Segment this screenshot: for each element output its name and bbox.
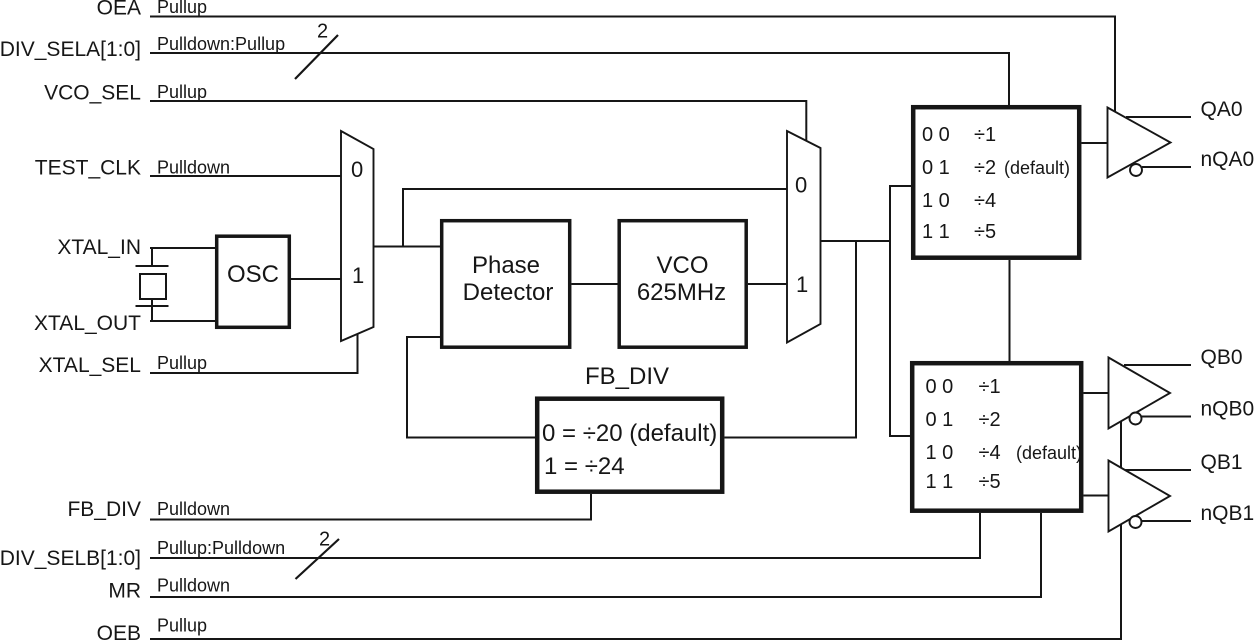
wire XTAL_SEL <box>150 333 358 373</box>
feedback divider FB_DIV <box>537 363 722 492</box>
svg-text:XTAL_IN: XTAL_IN <box>57 236 141 259</box>
svg-text:0: 0 <box>795 173 807 198</box>
svg-text:Pullup: Pullup <box>157 616 207 636</box>
svg-text:1 0: 1 0 <box>922 190 950 212</box>
wire divider A to divider B select <box>1009 260 1011 361</box>
wire PLL bypass node to mux2 input 0 <box>403 189 787 247</box>
phase detector U1 <box>442 221 570 348</box>
svg-text:QB0: QB0 <box>1201 346 1243 369</box>
svg-text:÷4: ÷4 <box>979 442 1001 464</box>
svg-text:1: 1 <box>352 263 364 288</box>
svg-text:QA0: QA0 <box>1201 98 1243 121</box>
divider B <box>912 363 1082 511</box>
VCO U2 <box>619 221 746 348</box>
svg-text:÷5: ÷5 <box>974 221 996 243</box>
inversion bubble B0 <box>1130 413 1142 425</box>
wire phase detector to VCO <box>572 283 618 285</box>
svg-text:÷2: ÷2 <box>974 157 996 179</box>
wire OSC to mux1 <box>291 278 341 280</box>
svg-text:0 0: 0 0 <box>926 376 954 398</box>
svg-text:0 1: 0 1 <box>926 409 954 431</box>
svg-text:VCO_SEL: VCO_SEL <box>44 82 141 105</box>
svg-text:TEST_CLK: TEST_CLK <box>35 157 141 180</box>
svg-text:Pullup: Pullup <box>157 82 207 102</box>
svg-text:VCO: VCO <box>656 252 708 279</box>
wire VCO_SEL <box>150 101 806 141</box>
svg-text:Phase: Phase <box>472 252 540 279</box>
svg-text:÷1: ÷1 <box>979 376 1001 398</box>
svg-text:nQB0: nQB0 <box>1201 398 1255 421</box>
svg-text:XTAL_SEL: XTAL_SEL <box>39 354 141 377</box>
svg-text:1 0: 1 0 <box>926 442 954 464</box>
mux M2 <box>787 131 821 343</box>
inversion bubble B1 <box>1130 516 1142 528</box>
wire VCO to mux2 input 1 <box>748 283 787 285</box>
svg-text:÷4: ÷4 <box>974 190 996 212</box>
svg-text:Pullup:Pulldown: Pullup:Pulldown <box>157 538 285 558</box>
svg-text:Detector: Detector <box>463 279 554 306</box>
wire OEB <box>150 421 1121 639</box>
svg-text:OEA: OEA <box>97 0 141 20</box>
svg-text:DIV_SELB[1:0]: DIV_SELB[1:0] <box>0 547 141 570</box>
svg-text:0 1: 0 1 <box>922 157 950 179</box>
svg-text:2: 2 <box>319 529 330 551</box>
svg-text:÷1: ÷1 <box>974 124 996 146</box>
bus slash DIV_SELA <box>295 35 338 79</box>
wire nQB0 <box>1142 416 1192 418</box>
svg-text:OEB: OEB <box>97 622 141 642</box>
svg-text:OSC: OSC <box>227 261 279 288</box>
svg-text:0 = ÷20 (default): 0 = ÷20 (default) <box>542 420 717 447</box>
svg-text:1 1: 1 1 <box>922 221 950 243</box>
svg-text:FB_DIV: FB_DIV <box>585 363 669 390</box>
wire DIV_SELA[1:0] <box>150 53 1009 105</box>
svg-text:625MHz: 625MHz <box>637 279 726 306</box>
svg-text:Pullup: Pullup <box>157 353 207 373</box>
oscillator OSC <box>217 236 290 327</box>
wire FB_DIV pin <box>150 494 591 520</box>
svg-text:XTAL_OUT: XTAL_OUT <box>34 312 141 335</box>
wire MR <box>150 513 1041 597</box>
wire nQA0 <box>1142 166 1191 168</box>
svg-text:(default): (default) <box>1004 158 1070 178</box>
wire nQB1 <box>1142 520 1192 522</box>
wire feedback tap to FB_DIV <box>725 241 857 438</box>
svg-text:DIV_SELA[1:0]: DIV_SELA[1:0] <box>0 38 141 61</box>
svg-text:1: 1 <box>796 272 808 297</box>
wire OEA <box>150 17 1115 112</box>
svg-text:Pullup: Pullup <box>157 0 207 17</box>
wire QA0 <box>1126 116 1191 118</box>
svg-text:nQB1: nQB1 <box>1201 502 1255 525</box>
wire XTAL_OUT <box>150 299 215 321</box>
svg-text:QB1: QB1 <box>1201 451 1243 474</box>
inversion bubble A <box>1130 164 1142 176</box>
output buffer B0 (QB0/nQB0) <box>1109 358 1171 429</box>
wire divider B output to buffer B0 <box>1084 392 1109 394</box>
wire QB1 <box>1124 469 1191 471</box>
mux M1 <box>341 131 374 341</box>
wire clock to dividers A and B <box>890 186 911 436</box>
wire mux2 output <box>821 240 891 242</box>
divider A <box>913 107 1079 258</box>
svg-text:MR: MR <box>108 580 141 603</box>
svg-text:2: 2 <box>317 21 328 43</box>
svg-text:nQA0: nQA0 <box>1201 148 1255 171</box>
output buffer A (QA0/nQA0) <box>1108 108 1171 178</box>
svg-text:1 1: 1 1 <box>926 471 954 493</box>
svg-text:÷5: ÷5 <box>979 471 1001 493</box>
output buffer B1 (QB1/nQB1) <box>1109 461 1171 532</box>
svg-text:0 0: 0 0 <box>922 124 950 146</box>
wire DIV_SELB[1:0] <box>150 513 980 558</box>
bus slash DIV_SELB <box>296 539 340 579</box>
wire TEST_CLK <box>150 175 341 177</box>
svg-text:Pulldown:Pullup: Pulldown:Pullup <box>157 34 285 54</box>
wire FB_DIV output to phase detector <box>407 337 535 438</box>
svg-text:FB_DIV: FB_DIV <box>67 498 141 521</box>
crystal X1 <box>136 266 169 306</box>
svg-text:Pulldown: Pulldown <box>157 499 230 519</box>
wire mux1 output to phase detector <box>374 246 441 248</box>
wire QB0 <box>1124 364 1191 366</box>
wire XTAL_IN <box>150 248 215 266</box>
svg-text:(default): (default) <box>1016 443 1082 463</box>
svg-text:Pulldown: Pulldown <box>157 576 230 596</box>
svg-text:÷2: ÷2 <box>979 409 1001 431</box>
svg-text:1 = ÷24: 1 = ÷24 <box>544 453 625 480</box>
wire divider B output to buffer B1 <box>1084 495 1109 497</box>
svg-text:0: 0 <box>351 157 363 182</box>
svg-text:Pulldown: Pulldown <box>157 158 230 178</box>
wire divider A output <box>1082 142 1108 144</box>
